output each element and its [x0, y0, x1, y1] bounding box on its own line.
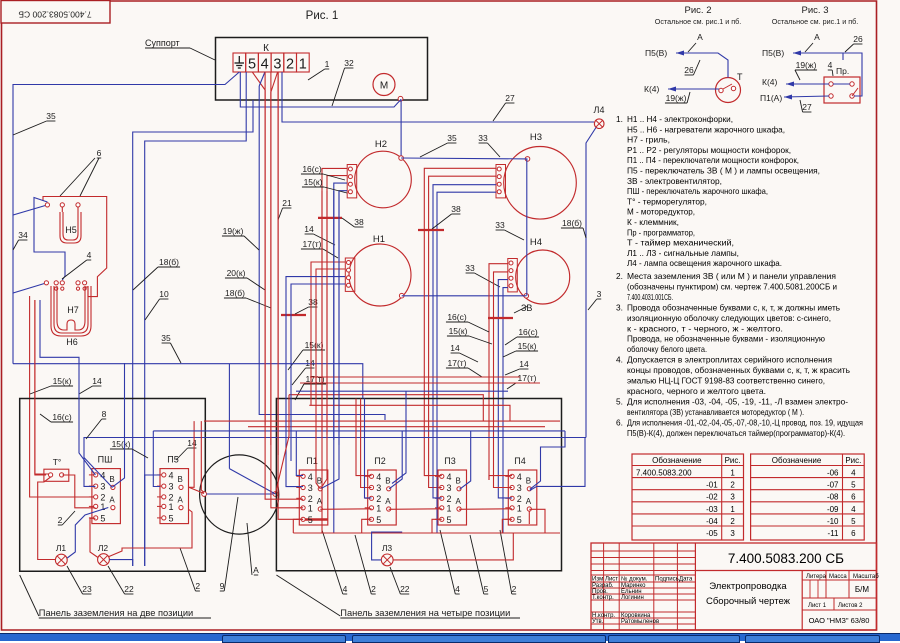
svg-text:2: 2	[169, 492, 174, 502]
svg-text:Логинин: Логинин	[621, 595, 644, 601]
wires H4 terminals	[489, 264, 508, 480]
svg-text:Рис. 3: Рис. 3	[802, 5, 829, 16]
svg-text:2: 2	[376, 494, 381, 504]
svg-text:9: 9	[220, 581, 225, 591]
wires H3 terminals	[424, 168, 496, 470]
svg-text:3: 3	[447, 483, 452, 493]
left ground panel outline	[20, 399, 206, 572]
svg-text:19(ж): 19(ж)	[666, 93, 687, 103]
band blue 391	[296, 390, 508, 392]
svg-text:1: 1	[100, 502, 105, 512]
svg-text:4: 4	[169, 470, 174, 480]
wire M motor	[282, 99, 401, 107]
corner stamp box	[1, 1, 110, 24]
svg-text:А: А	[526, 497, 532, 506]
band red 383	[300, 382, 540, 384]
svg-text:Н7: Н7	[67, 305, 79, 315]
wires H1 terminals	[311, 262, 345, 296]
K cells crossing wires	[252, 72, 265, 90]
svg-text:Т: Т	[737, 72, 743, 82]
wire 34 to grill	[13, 215, 46, 293]
svg-text:6.: 6.	[616, 417, 623, 427]
svg-text:Места заземления ЗВ ( или М ): Места заземления ЗВ ( или М ) и панели у…	[627, 271, 836, 281]
lamp L3	[381, 554, 393, 566]
svg-text:26: 26	[684, 65, 694, 75]
svg-text:К: К	[263, 43, 269, 54]
svg-text:5: 5	[851, 517, 856, 526]
taskbar	[0, 633, 900, 641]
svg-text:эмалью НЦ-Ц ГОСТ 9198-83 соотв: эмалью НЦ-Ц ГОСТ 9198-83 соответственно …	[627, 376, 825, 386]
svg-text:Допускается в электроплитах се: Допускается в электроплитах серийного ис…	[627, 355, 832, 365]
figure 2	[644, 5, 741, 94]
H1 bundle drops	[286, 296, 303, 487]
svg-text:2: 2	[371, 584, 376, 594]
svg-text:27: 27	[505, 93, 515, 103]
wire P5A to L2	[109, 510, 192, 557]
svg-text:Лист: Лист	[605, 577, 618, 583]
lamp L4	[594, 119, 604, 129]
svg-text:вентилятора (ЗВ) устанавливает: вентилятора (ЗВ) устанавливается моторед…	[627, 407, 804, 417]
svg-text:Подпись: Подпись	[655, 577, 679, 583]
svg-text:7.400.5083.200: 7.400.5083.200	[636, 469, 692, 478]
svg-text:Для исполнения -03, -04, -05,: Для исполнения -03, -04, -05, -19, -11, …	[627, 396, 848, 406]
P4 feeds	[489, 476, 512, 480]
P4 A red stub	[528, 511, 530, 524]
svg-text:18(б): 18(б)	[562, 218, 582, 228]
wire 18b vertical long	[133, 100, 253, 566]
wire 35 K ground to left	[13, 72, 239, 215]
svg-text:-05: -05	[706, 529, 718, 538]
svg-text:концы проводов, обозначенных б: концы проводов, обозначенных буквами с, …	[627, 365, 850, 375]
wire 13 down to 35 line	[12, 293, 14, 364]
svg-text:1: 1	[376, 503, 381, 513]
svg-text:3: 3	[730, 493, 735, 502]
svg-text:К(4): К(4)	[644, 84, 660, 94]
figure 3	[760, 5, 858, 103]
svg-text:35: 35	[161, 333, 171, 343]
svg-text:4: 4	[517, 472, 522, 482]
svg-text:35: 35	[46, 111, 56, 121]
svg-text:-11: -11	[828, 529, 840, 538]
svg-text:Панель заземления на четыре по: Панель заземления на четыре позиции	[340, 608, 510, 618]
svg-text:-03: -03	[706, 505, 718, 514]
svg-text:16(с): 16(с)	[518, 327, 538, 337]
svg-text:-04: -04	[706, 517, 718, 526]
svg-text:5: 5	[851, 481, 856, 490]
band blue 431	[153, 430, 565, 432]
svg-text:4: 4	[376, 472, 381, 482]
svg-text:В: В	[456, 477, 461, 486]
wire bus below K 1	[240, 72, 282, 107]
burner Н2	[347, 139, 411, 208]
legend notes text	[616, 114, 863, 438]
lamp L3 wires	[393, 533, 513, 560]
wire blue loop H5-H7	[34, 198, 65, 281]
switch П3	[435, 456, 467, 525]
svg-text:3: 3	[308, 483, 313, 493]
wire 21 red bundle	[264, 72, 266, 425]
svg-text:А: А	[697, 32, 703, 42]
burner Н1	[345, 234, 411, 306]
svg-text:Н6: Н6	[66, 337, 78, 347]
svg-text:2: 2	[195, 581, 200, 591]
svg-text:-10: -10	[827, 517, 839, 526]
svg-text:Провода, не обозначенные буква: Провода, не обозначенные буквами - изоля…	[627, 334, 825, 344]
heater H5	[45, 203, 81, 243]
P3 feeds	[424, 470, 442, 476]
wire 8 branch to PShB	[84, 458, 112, 488]
switch П5	[157, 455, 189, 524]
switch П1	[296, 456, 328, 525]
svg-text:5: 5	[517, 515, 522, 525]
svg-text:3: 3	[100, 482, 105, 492]
svg-text:16(с): 16(с)	[52, 412, 72, 422]
svg-text:7.400.5083.200 СБ: 7.400.5083.200 СБ	[18, 10, 92, 20]
svg-text:17(т): 17(т)	[517, 373, 536, 383]
svg-text:ЗВ - электровентилятор,: ЗВ - электровентилятор,	[627, 176, 722, 186]
svg-text:П5(В): П5(В)	[645, 48, 667, 58]
svg-text:П5(В)-К(4), должен переключать: П5(В)-К(4), должен переключаться таймер(…	[627, 428, 845, 438]
svg-text:Н1: Н1	[373, 234, 385, 245]
svg-text:П1(А): П1(А)	[760, 93, 782, 103]
svg-text:5: 5	[484, 584, 489, 594]
svg-text:1: 1	[730, 469, 735, 478]
svg-text:4: 4	[447, 472, 452, 482]
svg-text:ПШ: ПШ	[98, 455, 113, 465]
svg-text:14: 14	[92, 376, 102, 386]
svg-text:Л1 .. Л3 - сигнальные лампы,: Л1 .. Л3 - сигнальные лампы,	[627, 248, 739, 258]
wire T deg left red	[35, 300, 46, 475]
fig2 wires	[676, 51, 684, 56]
svg-text:3: 3	[730, 529, 735, 538]
svg-text:15(к): 15(к)	[518, 341, 537, 351]
wire T deg to L1	[38, 477, 56, 560]
svg-text:Обозначение: Обозначение	[772, 456, 822, 465]
svg-text:15(к): 15(к)	[304, 177, 323, 187]
svg-text:Ратомыленов: Ратомыленов	[621, 619, 659, 625]
svg-text:4.: 4.	[616, 355, 623, 365]
svg-text:Т°: Т°	[53, 457, 62, 467]
svg-text:5: 5	[308, 515, 313, 525]
svg-text:5.: 5.	[616, 396, 623, 406]
svg-text:Т - таймер механический,: Т - таймер механический,	[627, 238, 734, 248]
svg-text:2.: 2.	[616, 271, 623, 281]
terminal dot H2	[399, 156, 404, 161]
wire L2 blue	[109, 560, 132, 566]
bold red P1 row5	[303, 518, 328, 520]
svg-text:Провода обозначенные буквами с: Провода обозначенные буквами с, к, т, ж …	[627, 302, 840, 312]
svg-text:В: В	[317, 477, 322, 486]
ZV junction	[488, 317, 513, 319]
svg-text:5: 5	[376, 515, 381, 525]
fig3 programmer Pr	[824, 66, 860, 103]
svg-text:5: 5	[100, 513, 105, 523]
wire P5B to fan	[189, 421, 194, 487]
terminal dot H1	[399, 293, 404, 298]
svg-text:Дата: Дата	[679, 577, 693, 583]
svg-text:27: 27	[802, 102, 812, 112]
right ground panel outline	[276, 399, 561, 571]
svg-text:3: 3	[597, 289, 602, 299]
svg-text:Лист 1: Лист 1	[808, 603, 827, 609]
svg-text:14: 14	[305, 358, 315, 368]
svg-text:-01: -01	[706, 481, 718, 490]
svg-text:38: 38	[354, 217, 364, 227]
svg-text:Изм: Изм	[592, 577, 603, 583]
svg-text:А: А	[253, 565, 259, 575]
wire red from H6 down	[30, 296, 96, 497]
svg-text:6: 6	[97, 148, 102, 158]
wire L1 blue	[67, 508, 108, 559]
switch П4	[505, 456, 537, 525]
svg-text:-02: -02	[706, 493, 718, 502]
band red 394 loop	[289, 395, 483, 421]
svg-text:1: 1	[299, 57, 307, 73]
motor M	[373, 74, 403, 102]
svg-text:Масса: Масса	[829, 574, 847, 580]
band red 377	[310, 376, 520, 378]
svg-text:П5(В): П5(В)	[762, 48, 784, 58]
svg-text:20(к): 20(к)	[227, 268, 246, 278]
svg-text:6: 6	[851, 529, 856, 538]
svg-text:А: А	[109, 496, 115, 505]
svg-text:Литера: Литера	[806, 574, 827, 580]
svg-text:П4: П4	[514, 456, 525, 466]
svg-text:17(т): 17(т)	[447, 358, 466, 368]
wire 8 long blue	[84, 438, 586, 487]
svg-text:А: А	[814, 32, 820, 42]
svg-text:16(с): 16(с)	[302, 164, 322, 174]
wire PSh5 to L2	[90, 518, 98, 557]
terminal block enclosure (Суппорт)	[216, 38, 428, 101]
svg-text:1: 1	[730, 505, 735, 514]
svg-text:К - клеммник,: К - клеммник,	[627, 217, 679, 227]
switch ПШ	[89, 455, 121, 524]
svg-text:к - красного, т - черного, ж -: к - красного, т - черного, ж - желтого.	[627, 323, 783, 333]
wire 33 H3 to H4	[526, 159, 528, 296]
svg-text:7.400.4031.001СБ.: 7.400.4031.001СБ.	[627, 292, 673, 302]
svg-text:35: 35	[447, 133, 457, 143]
svg-text:Пр - программатор,: Пр - программатор,	[627, 227, 695, 237]
wire fan apex riser	[228, 364, 230, 469]
svg-text:Н1 .. Н4 - электроконфорки,: Н1 .. Н4 - электроконфорки,	[627, 114, 733, 124]
svg-text:Рис.: Рис.	[845, 456, 861, 465]
lamp L1	[55, 554, 67, 566]
wire 35 blue mid	[13, 364, 363, 399]
svg-text:2: 2	[58, 515, 63, 525]
svg-text:Н2: Н2	[375, 139, 387, 150]
svg-text:3.: 3.	[616, 302, 623, 312]
fan ZV circle	[200, 455, 279, 534]
svg-text:18(б): 18(б)	[225, 288, 245, 298]
P3 B riser	[460, 431, 471, 489]
svg-text:5: 5	[169, 513, 174, 523]
junction bar 38 left	[318, 217, 342, 219]
svg-text:Для исполнения -01,-02,-04,-05: Для исполнения -01,-02,-04,-05,-07,-08,-…	[627, 417, 863, 427]
svg-text:ПШ - переключатель жарочного ш: ПШ - переключатель жарочного шкафа,	[627, 186, 768, 196]
svg-text:П5 - переключатель ЗВ ( М ) и: П5 - переключатель ЗВ ( М ) и лампы осве…	[627, 166, 820, 176]
band red 427	[248, 426, 545, 428]
wire P5-4 blue	[145, 475, 160, 566]
svg-text:К(4): К(4)	[762, 77, 778, 87]
svg-text:№ докум.: № докум.	[621, 576, 648, 583]
svg-text:15(к): 15(к)	[112, 439, 131, 449]
svg-text:Н5 .. Н6 - нагреватели жарочно: Н5 .. Н6 - нагреватели жарочного шкафа,	[627, 124, 785, 134]
A bus red	[320, 508, 371, 511]
svg-text:3: 3	[273, 57, 281, 73]
svg-text:15(к): 15(к)	[305, 340, 324, 350]
wire 19zh vertical	[259, 86, 385, 420]
svg-text:Н7 - гриль,: Н7 - гриль,	[627, 135, 670, 145]
svg-text:4: 4	[308, 472, 313, 482]
fig2 timer T	[716, 72, 744, 103]
svg-text:Утв.: Утв.	[592, 619, 604, 625]
svg-text:23: 23	[82, 584, 92, 594]
svg-text:Н4: Н4	[530, 237, 542, 248]
svg-text:В: В	[178, 475, 183, 484]
title block	[591, 543, 879, 630]
svg-text:19(ж): 19(ж)	[223, 226, 244, 236]
svg-text:4: 4	[851, 469, 856, 478]
svg-text:-07: -07	[827, 481, 839, 490]
ground symbol in cell 1	[235, 56, 245, 68]
svg-text:оболочку белого цвета.: оболочку белого цвета.	[627, 344, 707, 354]
svg-text:4: 4	[455, 584, 460, 594]
staircase bus red	[293, 519, 303, 533]
svg-text:15(к): 15(к)	[449, 326, 468, 336]
svg-text:14: 14	[450, 343, 460, 353]
svg-text:Л3: Л3	[382, 543, 393, 553]
svg-text:П5: П5	[167, 455, 178, 465]
svg-text:П3: П3	[444, 456, 455, 466]
svg-text:15(к): 15(к)	[53, 376, 72, 386]
switch П2	[365, 456, 397, 525]
svg-text:26: 26	[853, 34, 863, 44]
P1 feeds	[296, 431, 303, 476]
terminal dot H3	[525, 157, 530, 162]
svg-text:4: 4	[343, 584, 348, 594]
wire 35-33 H2 to H3	[401, 157, 527, 160]
svg-text:5: 5	[248, 57, 256, 73]
svg-text:4: 4	[87, 250, 92, 260]
svg-text:Т.контр.: Т.контр.	[592, 595, 614, 601]
svg-text:-08: -08	[827, 493, 839, 502]
svg-text:18(б): 18(б)	[159, 257, 179, 267]
svg-text:38: 38	[451, 204, 461, 214]
svg-text:2: 2	[517, 494, 522, 504]
svg-text:2: 2	[447, 494, 452, 504]
svg-text:33: 33	[465, 263, 475, 273]
svg-text:ОАО "НМЗ" 63/80: ОАО "НМЗ" 63/80	[809, 616, 870, 625]
svg-text:8: 8	[102, 409, 107, 419]
svg-text:-06: -06	[827, 469, 839, 478]
svg-text:6: 6	[851, 493, 856, 502]
svg-text:2: 2	[286, 57, 294, 73]
table variants left	[632, 454, 744, 540]
svg-text:(обозначены пунктиром) см. чер: (обозначены пунктиром) см. чертеж 7.400.…	[627, 281, 837, 291]
wire red loop around H5	[43, 197, 107, 297]
svg-text:14: 14	[187, 438, 197, 448]
heater H7 grill	[44, 281, 91, 347]
svg-text:3: 3	[517, 483, 522, 493]
svg-text:Сборочный чертеж: Сборочный чертеж	[706, 596, 791, 607]
table variants right	[751, 454, 865, 540]
svg-text:33: 33	[478, 133, 488, 143]
svg-text:В: В	[385, 477, 390, 486]
wire T deg to PSh1	[62, 475, 95, 508]
svg-text:32: 32	[344, 58, 354, 68]
svg-text:14: 14	[304, 224, 314, 234]
svg-text:22: 22	[124, 584, 134, 594]
svg-text:Р1 .. Р2 - регуляторы мощности: Р1 .. Р2 - регуляторы мощности конфорок,	[627, 145, 791, 155]
P2 B riser	[389, 431, 402, 489]
svg-text:4: 4	[851, 505, 856, 514]
svg-text:34: 34	[18, 230, 28, 240]
svg-text:33: 33	[495, 220, 505, 230]
svg-text:2: 2	[308, 494, 313, 504]
junction bar 38 low	[281, 314, 306, 316]
H2 bundle drops	[321, 191, 323, 533]
wires H2 terminals	[322, 168, 347, 430]
svg-text:Пр.: Пр.	[836, 66, 849, 76]
thermostat T deg	[44, 457, 69, 481]
svg-text:Л4 - лампа освещения жарочного: Л4 - лампа освещения жарочного шкафа.	[627, 258, 782, 268]
svg-text:5: 5	[447, 515, 452, 525]
P4 B blue route right	[530, 437, 585, 490]
svg-text:10: 10	[159, 289, 169, 299]
svg-text:2: 2	[730, 517, 735, 526]
P2 feeds	[356, 399, 372, 476]
svg-text:Л4: Л4	[594, 105, 605, 115]
svg-text:1: 1	[517, 503, 522, 513]
svg-text:-09: -09	[827, 505, 839, 514]
band red 405 bus	[309, 405, 510, 421]
svg-text:2: 2	[512, 584, 517, 594]
svg-text:Рис. 1: Рис. 1	[306, 10, 339, 22]
svg-text:2: 2	[730, 481, 735, 490]
svg-text:Л2: Л2	[98, 543, 109, 553]
svg-text:Рис. 2: Рис. 2	[685, 5, 712, 16]
svg-text:Б/М: Б/М	[855, 585, 869, 594]
svg-text:Остальное см. рис.1 и пб.: Остальное см. рис.1 и пб.	[772, 17, 858, 26]
svg-text:А: А	[385, 497, 391, 506]
svg-text:21: 21	[282, 198, 292, 208]
svg-text:М - моторедуктор,: М - моторедуктор,	[627, 207, 695, 217]
svg-text:ЗВ: ЗВ	[521, 303, 532, 313]
svg-text:Листов 2: Листов 2	[838, 603, 863, 609]
svg-text:Рис.: Рис.	[725, 456, 741, 465]
junction bar 38 mid	[418, 229, 444, 231]
svg-text:4: 4	[261, 57, 269, 73]
svg-text:Т° - терморегулятор,: Т° - терморегулятор,	[627, 196, 707, 206]
terminal dot H4	[524, 294, 529, 299]
wire blue 246	[145, 72, 247, 566]
svg-text:изоляционную оболочку следующи: изоляционную оболочку следующих цветов: …	[627, 313, 831, 323]
lamp L2	[98, 554, 110, 566]
terminal strip K	[233, 43, 309, 73]
svg-text:Панель заземления на две позиц: Панель заземления на две позиции	[39, 608, 193, 618]
svg-text:19(ж): 19(ж)	[796, 60, 817, 70]
svg-text:14: 14	[519, 359, 529, 369]
svg-text:Масштаб: Масштаб	[853, 574, 879, 580]
svg-text:Н5: Н5	[65, 225, 77, 235]
svg-text:1.: 1.	[616, 114, 623, 124]
wire 18b right vertical	[586, 128, 596, 438]
svg-text:7.400.5083.200 СБ: 7.400.5083.200 СБ	[728, 551, 844, 566]
svg-text:2: 2	[100, 492, 105, 502]
band red 421	[204, 420, 560, 422]
svg-text:1: 1	[169, 502, 174, 512]
